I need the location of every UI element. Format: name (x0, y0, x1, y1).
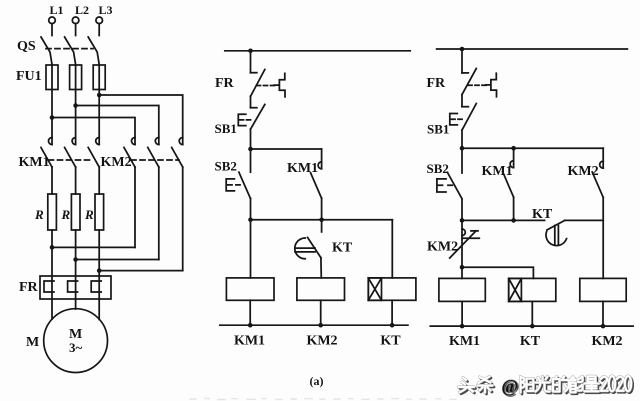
wire top rail middle (225, 50, 410, 52)
svg-text:FU1: FU1 (16, 69, 42, 84)
wire tap A to column D (52, 118, 135, 145)
wire KT contact to KM2 branch (565, 219, 604, 221)
contact KM1 aux right (503, 148, 514, 220)
node mid junction km2 (319, 218, 324, 223)
FR heater a (44, 281, 54, 292)
wire L2 drop (75, 24, 77, 36)
svg-text:FR: FR (427, 76, 447, 91)
wire KT coil to rail right (531, 301, 533, 326)
terminal L2 (72, 17, 79, 24)
button SB1 blade (251, 105, 265, 130)
node rail KM1 right (460, 324, 465, 329)
relay FR actuator right (486, 73, 497, 97)
wire KM2 coil to rail right (602, 301, 604, 326)
wire A below resistor (51, 230, 53, 299)
wire drop to FR right (461, 49, 463, 73)
node rail KM2 (318, 323, 323, 328)
wire branch horizontal right (462, 147, 603, 149)
svg-text:KM1: KM1 (287, 161, 318, 176)
svg-text:KM1: KM1 (482, 164, 513, 179)
watermark shadow layer (460, 377, 633, 394)
svg-text:KM2: KM2 (306, 334, 337, 349)
wire A to resistor (51, 167, 53, 194)
node junction lower right (460, 265, 465, 270)
node branch top right (460, 146, 465, 151)
coil KM1 right (439, 278, 485, 301)
watermark at-sign (502, 376, 520, 397)
svg-text:FR: FR (215, 76, 235, 91)
fuse FU1 c (93, 65, 105, 90)
wire SB1 down (250, 129, 252, 149)
node rail KT (390, 323, 395, 328)
fuse FU1 a (46, 65, 58, 90)
wire bypass F to C (99, 270, 183, 272)
wire KM1 coil to rail right (461, 301, 463, 326)
wire lower horizontal right (462, 219, 545, 221)
button SB2 actuator (226, 179, 240, 191)
button SB1 seat right (462, 106, 468, 108)
fuse FU1 b (70, 65, 82, 90)
wire junction to KM1 coil (461, 267, 463, 278)
cropped caption remnants (190, 399, 456, 400)
wire FR to SB1 right (461, 95, 463, 107)
switch QS blade 3 (88, 37, 99, 65)
relay contact FR seat (251, 72, 257, 74)
svg-text:KM1: KM1 (234, 334, 265, 349)
wire B below resistor (75, 230, 77, 299)
node lower junction km1 right (511, 218, 516, 223)
button SB2 blade (239, 172, 251, 198)
wire column E bypass (158, 167, 160, 260)
wire C to motor (98, 299, 100, 320)
svg-text:L1: L1 (49, 3, 63, 17)
switch QS linkage dashes (46, 48, 93, 50)
resistor R1 (48, 194, 57, 230)
svg-text:KM1: KM1 (449, 334, 480, 349)
node rail junction (248, 49, 253, 54)
wire tap B to column E (76, 106, 159, 145)
svg-text:L3: L3 (98, 3, 112, 17)
coil KM2 right (580, 278, 626, 301)
wire bottom rail right (430, 325, 633, 327)
wire bottom rail middle (220, 324, 408, 326)
coil KT right (509, 278, 556, 301)
svg-text:M: M (26, 335, 39, 350)
wire B to motor (75, 299, 77, 309)
button SB1 actuator (238, 114, 250, 125)
svg-text:KT: KT (332, 241, 353, 256)
contact KT delayed right blade (547, 220, 565, 230)
coil KM2 (297, 278, 345, 300)
node bypass A (50, 245, 55, 250)
wire B to resistor (75, 167, 77, 194)
button SB1 blade right (462, 104, 476, 131)
watermark rim layer (459, 376, 632, 393)
svg-text:FR: FR (19, 280, 39, 295)
contact KM2 pole3 (172, 138, 183, 168)
wire bypass E to B (76, 259, 159, 261)
thermal relay FR box (40, 276, 111, 299)
svg-text:KT: KT (532, 207, 553, 222)
button SB1 actuator right (450, 114, 462, 125)
svg-text:KM2: KM2 (427, 240, 458, 255)
relay contact FR blade right (462, 69, 476, 95)
contact KM2 aux right (592, 148, 603, 278)
svg-text:KM2: KM2 (101, 155, 132, 170)
resistor R2 (71, 194, 80, 230)
coil KM1 (226, 278, 274, 300)
node tap C (97, 93, 102, 98)
svg-text:3~: 3~ (69, 340, 83, 355)
wire L3 drop (98, 24, 100, 36)
coil KT (368, 278, 416, 300)
watermark highlight layer (459, 376, 632, 393)
svg-text:SB2: SB2 (427, 161, 449, 176)
wire SB2 down (250, 199, 252, 220)
svg-text:KT: KT (380, 334, 401, 349)
contact KT delay cup (295, 238, 315, 259)
contact KM1 pole1 (41, 138, 52, 168)
wire branch horizontal (251, 148, 322, 150)
contact KT delay cup right (543, 226, 567, 249)
motor M circle (44, 309, 108, 373)
wire C to resistor (98, 167, 100, 194)
node rail junction right (460, 47, 465, 52)
svg-text:SB2: SB2 (215, 159, 237, 174)
contact KM2 pole2 (148, 138, 159, 168)
wire phase A through fuses (51, 65, 53, 145)
node bypass C (97, 268, 102, 273)
button SB2 blade right (448, 173, 463, 199)
wire junction to KT coil (462, 267, 533, 278)
contactor KM1 linkage dashes (49, 159, 93, 161)
wire mid horizontal (251, 219, 393, 221)
wire SB1 down right (461, 130, 463, 148)
wire top rail right (437, 48, 628, 50)
node lower junction left right (460, 218, 465, 223)
node branch KM1 right (511, 146, 516, 151)
terminal L3 (96, 17, 103, 24)
node branch top (248, 147, 253, 152)
switch QS blade 1 (41, 37, 52, 65)
wire bypass D to A (52, 246, 135, 248)
wire drop to FR (250, 51, 252, 73)
contact KM2 NC (450, 200, 480, 267)
wire phase C through fuses (98, 65, 100, 145)
node mid junction left (248, 218, 253, 223)
svg-text:@: @ (502, 376, 519, 396)
contact KM1 pole3 (88, 138, 99, 168)
button SB1 seat (251, 107, 257, 109)
svg-text:R: R (84, 207, 94, 222)
svg-text:SB1: SB1 (215, 121, 237, 136)
wire column F bypass (182, 167, 184, 271)
node tap B (73, 103, 78, 108)
svg-text:R: R (61, 207, 71, 222)
svg-text:KM1: KM1 (19, 155, 50, 170)
wire KT coil to rail (391, 300, 393, 325)
svg-text:SB1: SB1 (427, 122, 449, 137)
svg-text:QS: QS (17, 39, 36, 54)
svg-text:R: R (34, 207, 44, 222)
wire KT branch drop (391, 220, 393, 278)
wire KM2 coil to rail (320, 300, 322, 325)
wire FR to SB1 (250, 96, 252, 107)
svg-text:(a): (a) (310, 374, 324, 388)
svg-text:KT: KT (520, 334, 541, 349)
relay contact FR seat right (462, 72, 468, 74)
relay FR dashes right (468, 84, 487, 86)
node rail KM1 (248, 323, 253, 328)
resistor R3 (95, 194, 104, 230)
wire phase B through fuses (75, 65, 77, 145)
wire KM1 coil to rail (249, 300, 251, 325)
node rail KT right (530, 324, 535, 329)
node bypass B (73, 257, 78, 262)
wire tap C to column F (99, 95, 183, 145)
switch QS blade 2 (65, 37, 76, 65)
relay FR dashes (257, 85, 276, 87)
wire column D bypass (134, 167, 136, 247)
button SB2 actuator right (437, 179, 452, 192)
wire to SB2 (250, 149, 252, 172)
wire C below resistor (98, 230, 100, 299)
contact KM2 pole1 (124, 138, 135, 168)
node rail KM2 right (601, 324, 606, 329)
svg-text:L2: L2 (75, 3, 89, 17)
relay contact FR blade (251, 70, 265, 97)
relay FR actuator (274, 73, 285, 97)
FR heater c (91, 281, 101, 292)
wire to SB2 right (461, 148, 463, 173)
node tap A (50, 115, 55, 120)
svg-text:KM2: KM2 (591, 334, 622, 349)
FR heater b (68, 281, 78, 292)
terminal L1 (49, 17, 56, 24)
contact KM1 aux (311, 149, 322, 220)
wire A to motor (51, 299, 53, 319)
wire L1 drop (51, 24, 53, 36)
wire SB2 branch to coil (250, 220, 252, 278)
contactor KM2 linkage dashes (131, 159, 179, 161)
contact KT delayed (308, 220, 322, 278)
contact KM1 pole2 (65, 138, 76, 168)
